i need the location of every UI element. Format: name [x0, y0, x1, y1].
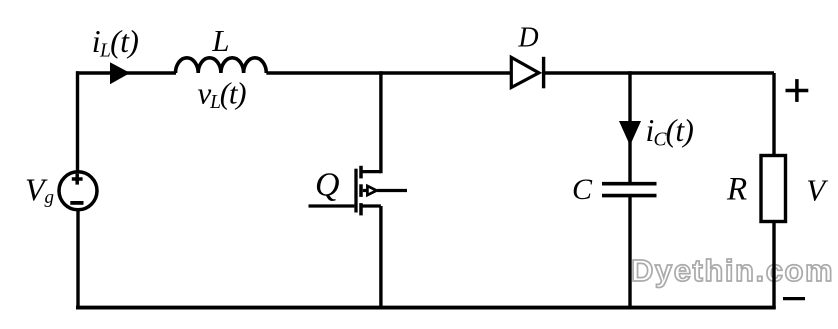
svg-text:R: R	[726, 171, 747, 207]
svg-text:D: D	[517, 22, 538, 53]
svg-text:iL(t): iL(t)	[92, 23, 139, 62]
svg-text:iC(t): iC(t)	[646, 113, 694, 151]
svg-text:Dyethin.com: Dyethin.com	[631, 253, 834, 288]
svg-text:Q: Q	[315, 166, 340, 203]
svg-text:V: V	[806, 172, 828, 207]
svg-text:L: L	[211, 23, 229, 58]
svg-text:vL(t): vL(t)	[198, 76, 247, 114]
svg-text:C: C	[572, 173, 593, 206]
svg-text:Vg: Vg	[25, 171, 54, 208]
